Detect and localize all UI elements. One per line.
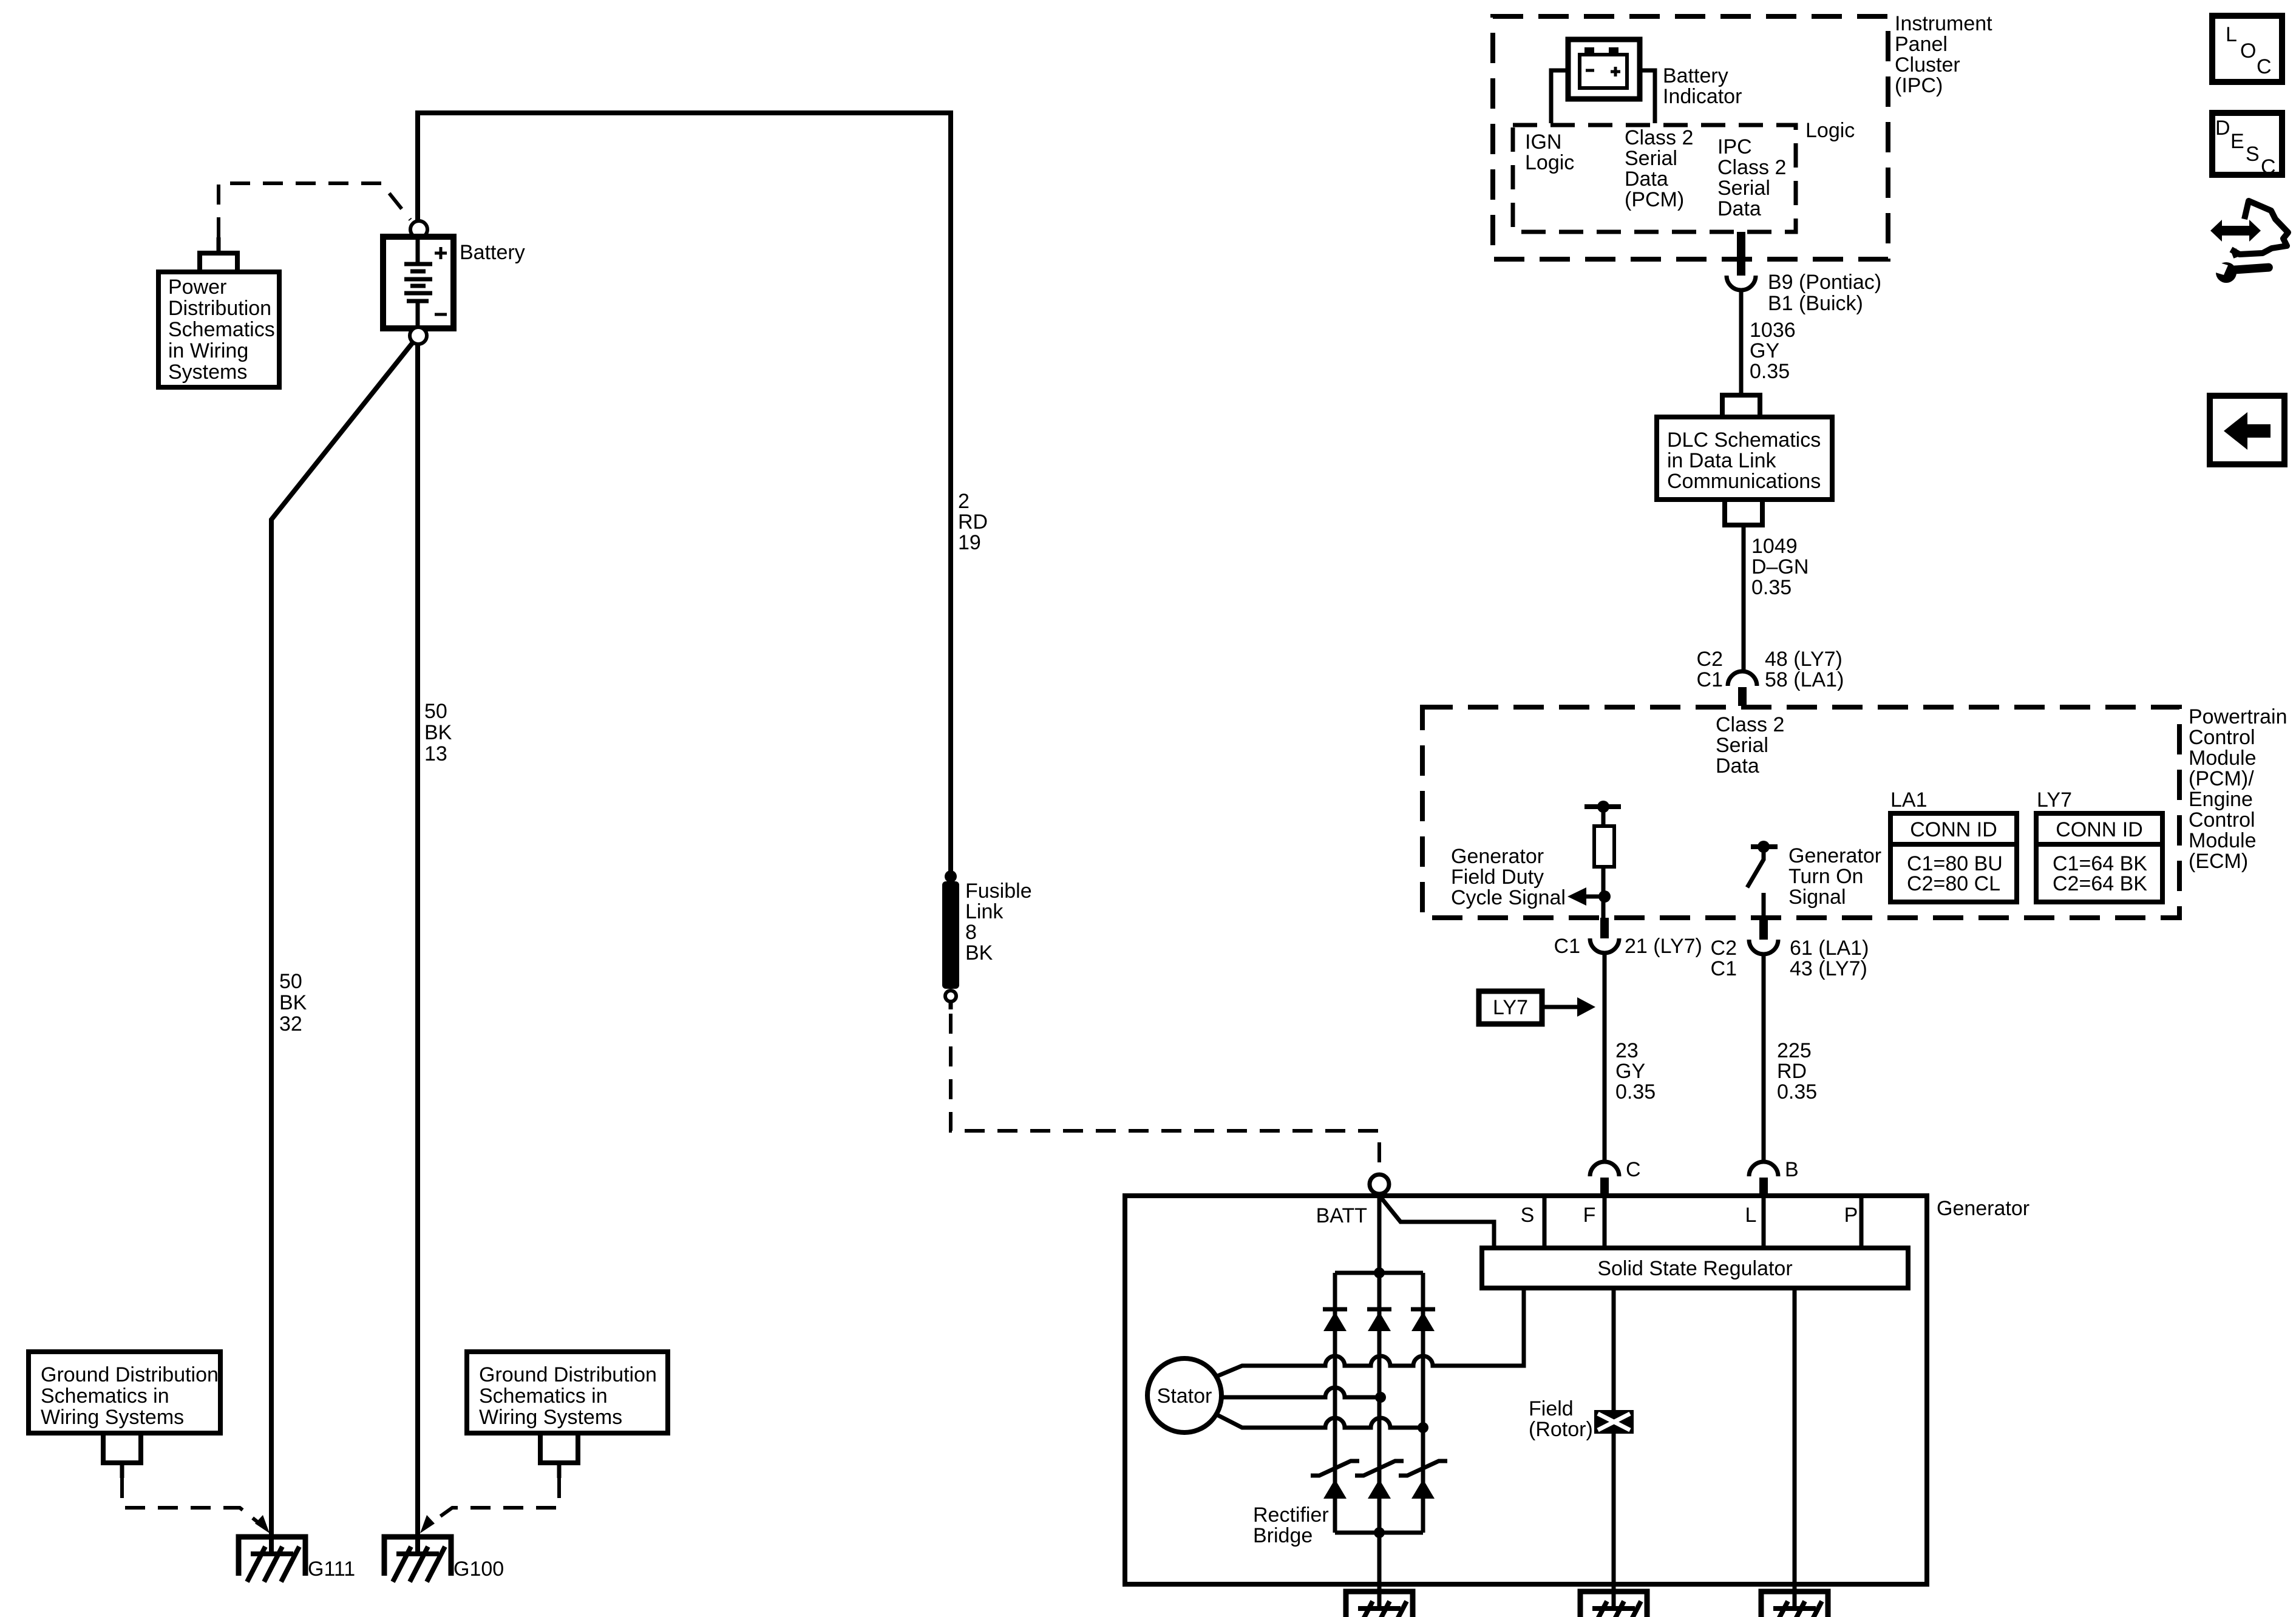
svg-text:Schematics in: Schematics in (479, 1385, 608, 1408)
wire rectifier right column (1421, 1273, 1425, 1533)
connector B cup at generator (1749, 1162, 1778, 1176)
connector B9 (Pontiac) B1 (Buick) pin (1737, 232, 1745, 276)
svg-text:C2: C2 (1697, 648, 1723, 671)
svg-text:(ECM): (ECM) (2189, 850, 2248, 873)
svg-text:Battery: Battery (1663, 64, 1728, 87)
wire BATT to rectifier bus (1377, 1194, 1382, 1273)
svg-text:61 (LA1): 61 (LA1) (1790, 937, 1869, 960)
svg-text:Distribution: Distribution (168, 297, 271, 320)
fork connector under right Ground Distribution box (540, 1433, 578, 1463)
svg-text:50: 50 (279, 970, 302, 993)
wire rectifier bottom bus (1335, 1531, 1423, 1535)
svg-text:Generator: Generator (1937, 1197, 2029, 1220)
svg-text:Panel: Panel (1895, 33, 1948, 56)
fork connector on DLC box bottom (1725, 500, 1762, 525)
svg-text:Class 2: Class 2 (1716, 713, 1784, 736)
svg-text:Cycle Signal: Cycle Signal (1451, 886, 1566, 909)
svg-text:LY7: LY7 (2037, 788, 2072, 812)
svg-text:GY: GY (1750, 339, 1779, 362)
svg-text:Generator: Generator (1788, 844, 1881, 867)
svg-text:32: 32 (279, 1012, 302, 1036)
fork connector on Power Distribution box (200, 253, 237, 272)
dashed reference line from Power Distribution box to battery positive (219, 183, 410, 237)
svg-text:LY7: LY7 (1493, 996, 1528, 1019)
dashed wire fusible link to generator BATT terminal (951, 1014, 1379, 1173)
svg-text:E: E (2230, 130, 2244, 153)
wire rectifier center column to ground (1377, 1196, 1382, 1609)
fusible link 8 BK (945, 870, 957, 883)
svg-text:48 (LY7): 48 (LY7) (1765, 648, 1843, 671)
diode upper left (1323, 1307, 1347, 1312)
svg-text:G100: G100 (453, 1558, 504, 1581)
battery negative terminal circle (410, 327, 427, 344)
node stator phase 3 junction (1418, 1422, 1428, 1433)
svg-text:Systems: Systems (168, 361, 247, 384)
svg-text:Class 2: Class 2 (1625, 126, 1693, 149)
svg-text:21 (LY7): 21 (LY7) (1625, 935, 1702, 958)
svg-text:(Rotor): (Rotor) (1529, 1418, 1593, 1441)
wire 50 BK 32 battery negative to G111 (271, 342, 413, 1551)
svg-text:C2=64 BK: C2=64 BK (2053, 872, 2147, 895)
svg-text:Control: Control (2189, 808, 2255, 832)
wire stator phase 1 to regulator (1216, 1288, 1524, 1377)
wire resistor to tee (1601, 807, 1606, 827)
connector B9 cup (1727, 276, 1756, 290)
box IPC Logic (dashed) (1513, 125, 1796, 232)
svg-text:Cluster: Cluster (1895, 53, 1960, 76)
node generator field duty top tee (1584, 804, 1621, 809)
svg-text:C: C (2257, 55, 2272, 78)
svg-text:Data: Data (1717, 197, 1761, 220)
box Powertrain Control Module PCM/ECM (dashed) (1422, 707, 2179, 918)
svg-text:C1: C1 (1697, 668, 1723, 691)
diode lower left (avalanche) (1311, 1461, 1359, 1476)
wire BATT to regulator S input (1381, 1197, 1494, 1246)
svg-text:Data: Data (1625, 168, 1668, 191)
node stator phase 2 junction (1375, 1392, 1386, 1403)
box Solid State Regulator (1482, 1248, 1908, 1288)
svg-text:1036: 1036 (1750, 319, 1796, 342)
svg-text:BK: BK (279, 991, 307, 1014)
svg-text:1049: 1049 (1751, 535, 1798, 558)
svg-text:O: O (2240, 39, 2256, 63)
node rectifier bottom bus junction (1374, 1527, 1385, 1538)
connector C cup at generator (1590, 1162, 1619, 1176)
svg-text:C1: C1 (1554, 935, 1580, 958)
svg-text:Schematics: Schematics (168, 318, 275, 341)
node rectifier top bus junction (1374, 1267, 1385, 1278)
node generator turn on top tee (1751, 844, 1778, 849)
svg-text:Link: Link (965, 900, 1004, 923)
svg-text:C: C (2261, 155, 2276, 178)
connector C2/C1 61/43 pin (1759, 918, 1768, 940)
connector C pin (1600, 1178, 1609, 1198)
wire 225 RD 0.35 (1762, 954, 1766, 1162)
connector C2/C1 48/58 cup (1728, 671, 1757, 686)
diode upper right (1411, 1307, 1435, 1312)
wire regulator to field rotor (1612, 1288, 1616, 1609)
wire 50 BK 13 battery negative to G100 (415, 344, 420, 1551)
wire stator phase 2 (1221, 1388, 1381, 1397)
table LY7 CONN ID (2036, 813, 2162, 902)
svg-text:Class 2: Class 2 (1717, 156, 1786, 179)
node field duty junction (1598, 890, 1611, 903)
box DLC Schematics in Data Link Communications (1657, 417, 1832, 500)
svg-text:Ground Distribution: Ground Distribution (41, 1363, 219, 1386)
svg-text:Logic: Logic (1805, 119, 1855, 142)
svg-text:(PCM)/: (PCM)/ (2189, 767, 2254, 790)
svg-text:BK: BK (424, 721, 452, 744)
wire battery indicator right lead (1640, 70, 1655, 123)
svg-text:Field: Field (1529, 1397, 1574, 1420)
box Generator (1125, 1196, 1927, 1584)
diode lower right (avalanche) (1399, 1461, 1447, 1476)
svg-text:B1 (Buick): B1 (Buick) (1768, 292, 1863, 315)
svg-text:LA1: LA1 (1890, 788, 1927, 812)
connector C1 21 (LY7) pin (1600, 918, 1609, 938)
box Ground Distribution Schematics in Wiring Systems (left) (29, 1352, 220, 1433)
svg-text:C2=80 CL: C2=80 CL (1907, 872, 2000, 895)
svg-text:23: 23 (1615, 1039, 1639, 1062)
svg-text:P: P (1844, 1204, 1858, 1227)
svg-text:C1: C1 (1711, 957, 1737, 980)
svg-text:Engine: Engine (2189, 788, 2253, 811)
svg-text:Stator: Stator (1157, 1385, 1212, 1408)
wire regulator right ground leg (1793, 1288, 1797, 1609)
svg-text:Indicator: Indicator (1663, 85, 1742, 108)
table LA1 CONN ID (1890, 813, 2017, 902)
svg-text:L: L (2226, 23, 2237, 46)
wire rectifier top bus (1335, 1271, 1423, 1275)
terminal divider P (1860, 1198, 1864, 1246)
svg-text:B9 (Pontiac): B9 (Pontiac) (1768, 271, 1881, 294)
svg-text:Module: Module (2189, 747, 2257, 770)
connector B pin (1759, 1178, 1768, 1198)
battery Battery (383, 237, 453, 328)
icon back arrow box (2210, 396, 2284, 464)
svg-text:225: 225 (1777, 1039, 1812, 1062)
svg-text:C: C (1626, 1158, 1641, 1181)
svg-text:G111: G111 (308, 1558, 355, 1581)
svg-text:58 (LA1): 58 (LA1) (1765, 668, 1844, 691)
box Instrument Panel Cluster IPC (dashed) (1493, 16, 1888, 259)
battery indicator symbol (1584, 47, 1594, 55)
svg-text:Rectifier: Rectifier (1253, 1503, 1329, 1527)
ground G100 (384, 1537, 451, 1576)
box Ground Distribution Schematics in Wiring Systems (right) (467, 1352, 668, 1433)
svg-text:Module: Module (2189, 829, 2257, 852)
connector C2/C1 48/58 pin (1738, 687, 1747, 706)
fork connector under left Ground Distribution box (103, 1433, 141, 1463)
svg-text:(IPC): (IPC) (1895, 74, 1943, 97)
svg-text:in Wiring: in Wiring (168, 339, 248, 362)
connector C1 21 (LY7) cup (1590, 938, 1619, 953)
switch generator turn on (1747, 847, 1764, 887)
wire stator phase 3 (1216, 1414, 1423, 1428)
svg-text:Battery: Battery (460, 241, 525, 264)
tag LY7 with arrow (1479, 991, 1542, 1024)
field rotor winding symbol (1594, 1410, 1634, 1434)
svg-text:L: L (1745, 1204, 1757, 1227)
terminal divider S|F (1543, 1198, 1547, 1246)
svg-text:Generator: Generator (1451, 845, 1544, 868)
ground G111 (239, 1537, 305, 1576)
svg-text:B: B (1785, 1158, 1799, 1181)
battery indicator lamp outline (1568, 39, 1640, 99)
svg-text:Solid State Regulator: Solid State Regulator (1597, 1257, 1792, 1280)
svg-text:Serial: Serial (1716, 734, 1768, 757)
box Power Distribution Schematics in Wiring Systems (158, 272, 279, 387)
svg-text:Serial: Serial (1625, 147, 1677, 170)
svg-text:Bridge: Bridge (1253, 1524, 1313, 1547)
svg-text:Serial: Serial (1717, 177, 1770, 200)
svg-text:D: D (2215, 117, 2230, 140)
svg-text:Field Duty: Field Duty (1451, 866, 1544, 889)
svg-text:Turn On: Turn On (1788, 865, 1863, 888)
svg-text:0.35: 0.35 (1615, 1080, 1656, 1103)
svg-text:Ground Distribution: Ground Distribution (479, 1363, 657, 1386)
svg-text:S: S (2246, 143, 2260, 166)
svg-text:CONN ID: CONN ID (1910, 818, 1997, 841)
svg-text:GY: GY (1615, 1060, 1645, 1083)
svg-text:DLC Schematics: DLC Schematics (1667, 429, 1821, 452)
wire 23 GY 0.35 (1603, 953, 1607, 1162)
ground generator field (1580, 1592, 1647, 1617)
svg-text:Fusible: Fusible (965, 880, 1032, 903)
svg-text:13: 13 (424, 742, 447, 765)
svg-text:in Data Link: in Data Link (1667, 449, 1777, 472)
ground generator regulator (1761, 1592, 1828, 1617)
svg-text:2: 2 (958, 490, 970, 513)
svg-text:D–GN: D–GN (1751, 555, 1809, 578)
svg-text:CONN ID: CONN ID (2056, 818, 2143, 841)
svg-text:43 (LY7): 43 (LY7) (1790, 957, 1867, 980)
resistor generator field duty cycle (1594, 826, 1614, 867)
diode upper middle (1367, 1307, 1391, 1312)
svg-text:Signal: Signal (1788, 886, 1846, 909)
svg-text:Schematics in: Schematics in (41, 1385, 169, 1408)
svg-text:Power: Power (168, 276, 226, 299)
svg-text:RD: RD (958, 510, 988, 534)
svg-text:IGN: IGN (1525, 131, 1561, 154)
arrow generator field duty cycle signal (1584, 895, 1605, 899)
icon DESC box (2212, 113, 2282, 175)
svg-text:C2: C2 (1711, 937, 1737, 960)
wire battery positive feed to fusible link (418, 113, 951, 873)
wire F terminal to regulator (1603, 1198, 1607, 1246)
ground generator rectifier (1346, 1592, 1413, 1617)
dashed reference line to ground G111 (122, 1478, 261, 1525)
svg-text:0.35: 0.35 (1751, 576, 1792, 599)
svg-text:Logic: Logic (1525, 151, 1574, 174)
battery positive terminal circle (410, 221, 427, 238)
wire battery indicator left lead (1551, 70, 1568, 123)
svg-text:Control: Control (2189, 726, 2255, 749)
svg-text:Powertrain: Powertrain (2189, 705, 2288, 728)
svg-text:BK: BK (965, 941, 993, 964)
wire 1036 GY 0.35 (1739, 290, 1744, 395)
wire L terminal to regulator (1762, 1198, 1766, 1246)
icon LOC box (2212, 16, 2282, 82)
diode lower middle (avalanche) (1355, 1461, 1404, 1476)
wire switch lower contact (1762, 893, 1766, 918)
dashed reference line to ground G100 (429, 1478, 559, 1525)
svg-text:Instrument: Instrument (1895, 12, 1992, 35)
svg-text:IPC: IPC (1717, 135, 1752, 158)
svg-text:0.35: 0.35 (1750, 360, 1790, 383)
svg-text:F: F (1583, 1204, 1596, 1227)
svg-text:(PCM): (PCM) (1625, 188, 1684, 211)
stator winding circle (1147, 1358, 1221, 1432)
icon hand with double arrow and wrench (2210, 220, 2261, 242)
svg-text:S: S (1521, 1204, 1535, 1227)
svg-text:0.35: 0.35 (1777, 1080, 1817, 1103)
svg-text:19: 19 (958, 531, 981, 554)
svg-text:RD: RD (1777, 1060, 1807, 1083)
svg-text:Communications: Communications (1667, 470, 1821, 493)
svg-text:8: 8 (965, 921, 977, 944)
wire 1049 D-GN 0.35 (1742, 525, 1746, 671)
wire rectifier left column (1333, 1273, 1337, 1533)
svg-text:Data: Data (1716, 754, 1759, 778)
svg-text:BATT: BATT (1316, 1204, 1367, 1227)
svg-text:Wiring Systems: Wiring Systems (41, 1406, 184, 1429)
svg-text:Wiring Systems: Wiring Systems (479, 1406, 622, 1429)
svg-text:50: 50 (424, 700, 447, 723)
fork connector on DLC box top (1722, 395, 1760, 417)
wire resistor to junction (1601, 867, 1606, 918)
terminal BATT circle (1370, 1175, 1389, 1194)
connector C2/C1 61/43 cup (1749, 940, 1778, 954)
